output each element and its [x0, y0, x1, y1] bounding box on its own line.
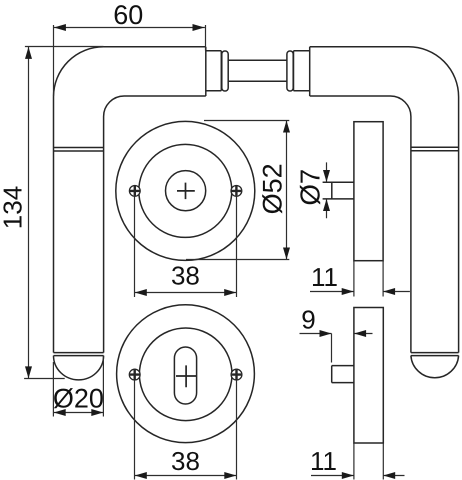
- dim 38 bottom extensions: [135, 380, 237, 479]
- right grip end cap: [411, 356, 459, 378]
- arrow 60 right: [193, 24, 205, 31]
- right grip bottom joint: [411, 353, 459, 356]
- screw top-left: [129, 186, 140, 197]
- left lever tube end: [205, 47, 207, 96]
- left ring: [222, 51, 228, 91]
- dim 11 top extensions: [354, 261, 383, 297]
- dim 9 extension: [331, 334, 333, 363]
- right lever tube start: [309, 47, 311, 96]
- dim 9 line: [300, 333, 373, 335]
- dim 38 top extensions: [135, 197, 237, 298]
- dim 134 line: [28, 47, 30, 379]
- arrow O52 down: [283, 248, 290, 260]
- right grip upper joint: [411, 147, 459, 151]
- middle circle: [139, 144, 232, 237]
- arrow 11top right: [342, 288, 354, 295]
- screw top-right: [231, 186, 242, 197]
- arrow 11bot right: [342, 472, 354, 479]
- arrow O20 right: [91, 409, 103, 416]
- rosette profile rect: [354, 308, 383, 444]
- key oval: [174, 347, 196, 404]
- dim O52 bottom extension: [186, 259, 289, 261]
- arrow 134 up: [25, 47, 32, 59]
- arrow 38top right: [224, 289, 236, 296]
- arrow O7 up: [323, 199, 330, 211]
- dim O52 top extension: [204, 120, 289, 122]
- left collar: [206, 51, 222, 91]
- arrow O20 left: [54, 409, 66, 416]
- left lever inner contour: [104, 96, 206, 353]
- arrow O52 up: [283, 121, 290, 133]
- svg-text:11: 11: [310, 446, 337, 476]
- left grip end cap: [54, 356, 104, 380]
- dim 11 bottom extensions: [354, 443, 383, 480]
- left grip upper joint: [54, 148, 104, 152]
- key cross: [176, 365, 196, 387]
- spindle tab: [323, 182, 354, 199]
- arrow 38bot right: [224, 472, 236, 479]
- dim O20 extensions: [53, 356, 103, 417]
- dim 60 right extension: [205, 25, 207, 51]
- dim 38 top line: [135, 292, 237, 294]
- dim 11 bottom line: [311, 475, 405, 477]
- left lever outer contour: [54, 47, 206, 353]
- dim 60 line: [54, 27, 205, 29]
- svg-text:Ø7: Ø7: [295, 169, 326, 206]
- svg-text:9: 9: [301, 305, 315, 335]
- left grip bottom joint: [54, 353, 104, 356]
- arrow 9 left: [354, 330, 366, 337]
- right lever inner contour: [310, 96, 411, 353]
- dim 11 top line: [310, 291, 410, 293]
- svg-text:Ø52: Ø52: [258, 163, 288, 214]
- svg-text:134: 134: [0, 186, 28, 229]
- right collar: [294, 51, 310, 91]
- arrow 38top left: [135, 289, 147, 296]
- svg-text:60: 60: [113, 0, 143, 30]
- spindle cross: [177, 183, 195, 200]
- svg-text:38: 38: [171, 260, 200, 290]
- dim O20 line: [54, 412, 104, 414]
- arrow 9 right: [320, 330, 332, 337]
- svg-text:11: 11: [311, 262, 338, 292]
- screw bottom-right: [231, 369, 242, 380]
- rosette profile rect: [354, 122, 383, 261]
- arrow 11top left: [383, 288, 395, 295]
- arrow 134 down: [25, 366, 32, 378]
- arrow 38bot left: [135, 472, 147, 479]
- right ring: [287, 51, 293, 91]
- dim 134 bottom extension: [24, 378, 65, 380]
- middle circle: [139, 328, 232, 421]
- spindle shaft: [228, 60, 287, 81]
- outer circle: [116, 121, 255, 260]
- svg-text:38: 38: [171, 446, 200, 476]
- right lever outer contour: [310, 47, 459, 353]
- spindle hole circle: [166, 171, 206, 211]
- dim 60 left extension: [53, 25, 55, 96]
- arrow O7 down: [323, 170, 330, 182]
- svg-text:Ø20: Ø20: [53, 384, 104, 414]
- dim O52 line: [286, 121, 288, 260]
- dim 134 top extension: [25, 46, 104, 48]
- dim O7 arrows line: [326, 162, 328, 218]
- cylinder tab: [332, 366, 354, 383]
- outer circle: [117, 305, 255, 443]
- screw bottom-left: [129, 369, 140, 380]
- arrow 11bot left: [383, 472, 395, 479]
- dim 38 bottom line: [135, 475, 237, 477]
- arrow 60 left: [54, 24, 66, 31]
